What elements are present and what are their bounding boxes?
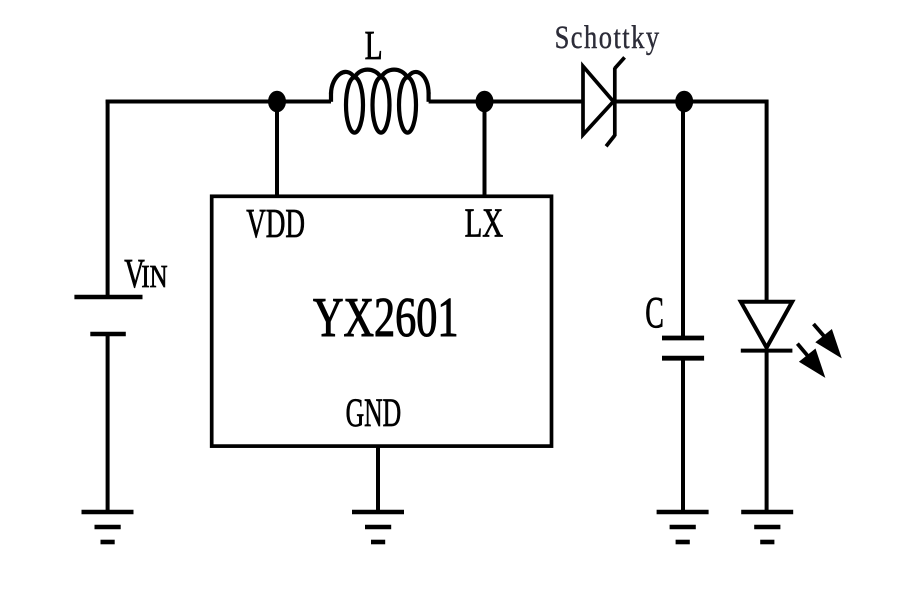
svg-text:IN: IN <box>141 258 167 294</box>
label L <box>365 22 383 68</box>
wire top horizontal from inductor to Schottky anode <box>429 100 583 104</box>
inductor L <box>331 70 429 133</box>
label VIN <box>124 250 167 296</box>
ground below LED <box>741 512 793 542</box>
capacitor C plates <box>662 338 704 358</box>
svg-text:GND: GND <box>346 390 402 435</box>
svg-text:Schottky: Schottky <box>555 20 661 56</box>
label Schottky <box>555 20 661 56</box>
node B junction dot (LX tap) <box>476 91 494 113</box>
op IC U1 box YX2601 <box>212 196 552 446</box>
pin label VDD <box>246 200 305 246</box>
wire VDD pin <box>275 102 279 197</box>
wire capacitor branch upper <box>681 102 685 339</box>
svg-text:YX2601: YX2601 <box>313 287 459 349</box>
wire top horizontal from VIN corner to inductor <box>106 100 331 104</box>
wire capacitor branch lower <box>681 358 685 512</box>
svg-text:L: L <box>365 22 383 68</box>
ground below battery <box>82 512 134 542</box>
wire LED branch lower <box>765 351 769 512</box>
wire top horizontal from Schottky cathode to LED corner <box>615 100 769 104</box>
diode D1 Schottky <box>583 57 625 146</box>
node A junction dot (VDD tap) <box>268 91 286 113</box>
label YX2601 <box>313 287 459 349</box>
wire battery negative to ground <box>106 336 110 512</box>
node C junction dot (output) <box>675 91 693 113</box>
svg-text:LX: LX <box>465 201 504 247</box>
pin label GND <box>346 390 402 435</box>
LED D2 <box>741 302 793 351</box>
ground below capacitor <box>657 512 709 542</box>
label C <box>645 287 664 337</box>
LED light arrow 1 <box>814 324 841 357</box>
wire left vertical VIN feed <box>106 100 110 296</box>
svg-text:VDD: VDD <box>246 200 305 246</box>
svg-text:C: C <box>645 287 664 337</box>
wire LED branch upper <box>765 100 769 302</box>
wire LX pin <box>483 102 487 197</box>
ground below IC <box>352 512 404 542</box>
wire GND pin to ground <box>376 446 380 512</box>
pin label LX <box>465 201 504 247</box>
LED light arrow 2 <box>797 344 824 377</box>
battery VIN <box>74 297 142 334</box>
